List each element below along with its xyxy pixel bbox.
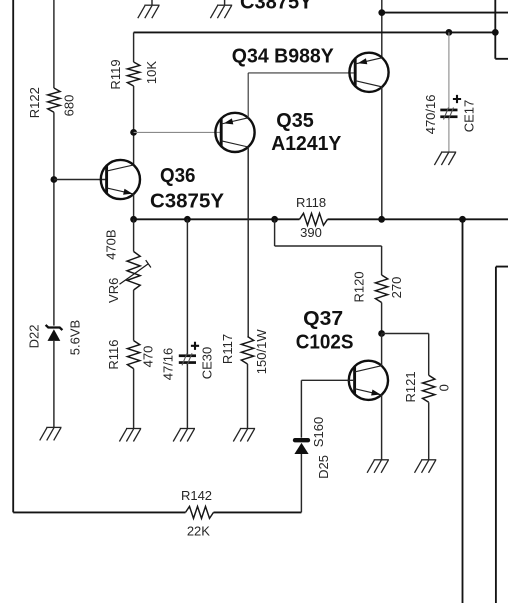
- junction node CE17 top: [446, 29, 453, 36]
- junction node Q36 emitter / R118: [130, 216, 137, 223]
- resistor R121: [423, 375, 435, 402]
- svg-text:680: 680: [61, 95, 76, 117]
- transistor Q35: [215, 113, 254, 152]
- wire left frame vertical: [12, 0, 14, 512]
- wire right vertical rail 1: [462, 219, 464, 603]
- wire Q36 emitter down: [133, 194, 135, 219]
- ground CE30: [173, 429, 195, 442]
- wire R121 to ground: [428, 402, 430, 459]
- wire Q37 collector: [381, 334, 383, 367]
- svg-text:R120: R120: [352, 271, 367, 302]
- svg-text:150/1W: 150/1W: [254, 329, 269, 375]
- wire VR6 to R116: [133, 290, 135, 341]
- wire R118 net horizontal: [134, 218, 508, 220]
- resistor R120: [375, 275, 387, 303]
- wire top rail A: [382, 12, 508, 14]
- wire R122 to D22: [53, 112, 55, 325]
- wire Q36 base: [54, 179, 107, 181]
- wire right top corner: [495, 0, 508, 59]
- diode D25: [294, 440, 308, 454]
- resistor R122: [48, 88, 60, 112]
- svg-text:Q34 B988Y: Q34 B988Y: [232, 46, 335, 68]
- ground Q37 emitter: [367, 460, 389, 473]
- svg-text:22K: 22K: [187, 524, 210, 539]
- wire Q34 emitter to top: [381, 0, 383, 58]
- junction node right rail: [459, 216, 466, 223]
- wire R116 to ground: [133, 369, 135, 429]
- wire R142 net horizontal: [13, 511, 301, 513]
- svg-text:5.6VB: 5.6VB: [67, 320, 82, 355]
- wire top rail B: [134, 31, 496, 33]
- svg-text:390: 390: [300, 225, 322, 240]
- svg-text:D22: D22: [27, 325, 42, 349]
- wire to VR6: [133, 219, 135, 251]
- svg-text:C3875Y: C3875Y: [150, 190, 225, 212]
- svg-text:470: 470: [140, 346, 155, 368]
- wire Q35 emitter to Q34 base: [248, 73, 355, 118]
- ground CE17: [434, 152, 456, 165]
- wire top ground stub 1: [151, 0, 153, 5]
- transistor Q34: [349, 53, 388, 92]
- wire right vertical rail 2: [496, 267, 508, 603]
- wire R119 top lead: [133, 32, 135, 62]
- resistor R142: [186, 506, 214, 518]
- wire Q37 base: [301, 379, 354, 381]
- junction node top rail A: [378, 9, 385, 16]
- svg-text:Q36: Q36: [160, 165, 196, 187]
- svg-text:VR6: VR6: [106, 278, 121, 303]
- svg-text:C3875Y: C3875Y: [240, 0, 313, 14]
- svg-text:470/16: 470/16: [423, 95, 438, 135]
- ground top 1: [138, 5, 160, 18]
- ground R121: [415, 460, 437, 473]
- junction node R118 left: [271, 216, 278, 223]
- ground R116: [119, 429, 141, 442]
- wire CE17 to ground: [448, 118, 450, 152]
- wire Q37 emitter to ground: [381, 395, 383, 460]
- wire R119 to Q36 collector: [133, 86, 135, 164]
- wire Q35 base: [134, 131, 221, 133]
- svg-text:R122: R122: [27, 87, 42, 118]
- CE17 polarity plus: [453, 95, 461, 103]
- svg-text:R117: R117: [220, 334, 235, 364]
- svg-text:Q35: Q35: [276, 110, 314, 132]
- ground top 2: [210, 5, 232, 18]
- svg-text:CE17: CE17: [461, 100, 476, 133]
- svg-text:CE30: CE30: [200, 347, 215, 380]
- potentiometer VR6: [127, 252, 140, 291]
- svg-text:R121: R121: [403, 371, 418, 402]
- svg-text:0: 0: [436, 384, 451, 391]
- wire CE17 top lead: [448, 32, 450, 108]
- resistor R117: [241, 337, 253, 365]
- transistor Q37: [349, 361, 388, 400]
- capacitor CE17: [440, 108, 457, 120]
- wire R122 top lead: [53, 0, 55, 88]
- wire Q37 base to D25: [300, 380, 302, 437]
- svg-text:R142: R142: [181, 488, 212, 503]
- svg-text:470B: 470B: [104, 229, 119, 259]
- wire Q35 collector to R117: [247, 147, 249, 337]
- junction node Q37 collector: [378, 330, 385, 337]
- junction node CE30 branch: [184, 216, 191, 223]
- junction node top rail B right: [492, 29, 499, 36]
- wire R120 to Q37: [381, 303, 383, 334]
- svg-text:10K: 10K: [144, 61, 159, 84]
- wire D22 to ground: [53, 341, 55, 428]
- svg-text:Q37: Q37: [303, 308, 343, 330]
- wire R117 to ground: [247, 364, 249, 429]
- svg-text:S160: S160: [311, 417, 326, 447]
- ground D22: [40, 427, 62, 440]
- wire CE30 to ground: [186, 364, 188, 429]
- zener diode D22: [46, 325, 63, 341]
- transistor Q36: [101, 160, 140, 199]
- svg-text:R118: R118: [296, 195, 326, 210]
- svg-text:R116: R116: [106, 340, 121, 370]
- svg-text:270: 270: [389, 277, 404, 299]
- ground R117: [233, 429, 255, 442]
- wire D25 to R142 net: [300, 454, 302, 512]
- svg-text:R119: R119: [108, 59, 123, 89]
- capacitor CE30: [179, 353, 196, 365]
- wire R118 to R120: [275, 219, 382, 275]
- svg-text:A1241Y: A1241Y: [271, 133, 342, 155]
- svg-text:C102S: C102S: [296, 331, 354, 353]
- wire Q34 collector down: [381, 87, 383, 219]
- resistor R118: [300, 213, 328, 225]
- resistor R116: [127, 341, 139, 369]
- CE30 polarity plus: [191, 342, 199, 350]
- svg-text:47/16: 47/16: [160, 348, 175, 381]
- wire top ground stub 2: [224, 0, 226, 5]
- junction node Q36 base: [51, 176, 58, 183]
- wire to R121: [382, 334, 429, 376]
- junction node R118 right: [378, 216, 385, 223]
- svg-text:D25: D25: [316, 455, 331, 479]
- junction node Q35 base: [130, 129, 137, 136]
- resistor R119: [127, 62, 139, 86]
- wire CE30 top lead: [186, 219, 188, 354]
